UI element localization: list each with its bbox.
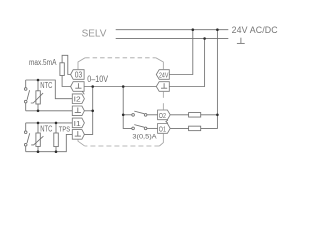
device outline dashes right side lower [162,103,164,109]
sensor TPS bottom lead [55,147,57,152]
svg-text:O2: O2 [159,111,166,120]
junction dot contact bus mid [122,114,125,117]
thermistor NTC1 bottom lead [37,104,39,111]
device outline stub at 24V [156,58,164,70]
wire ground distribution horizontal [84,86,156,88]
svg-text:max.5mA: max.5mA [29,58,57,67]
switch S1 riser top [25,80,27,88]
device outline stub at O1 [159,134,163,146]
wire 24V supply rail top [116,29,229,31]
svg-text:NTC: NTC [40,81,52,90]
device outline dashed bottom [85,145,160,147]
svg-text:TPS: TPS [59,125,70,134]
svg-text:0–10V: 0–10V [87,74,108,84]
wire O1 to load R2 [170,127,188,129]
junction dot contact bus top [122,85,125,88]
svg-text:24V AC/DC: 24V AC/DC [232,25,279,35]
switch S1 circle top [24,88,27,91]
junction dot NTC1 bottom [37,110,40,113]
terminal GND2 [72,106,84,116]
wire ground link to terminal bottom2 [84,110,92,112]
switch S1 circle bottom [24,100,27,103]
thermistor NTC2 top lead [37,123,39,133]
terminal O1 [158,124,171,134]
wire upper contact feed [123,114,132,116]
svg-text:I2: I2 [74,95,81,104]
wire sensor group1 bottom [26,110,73,112]
contact K2 circle left [132,127,135,130]
device outline stub below GND3 [78,140,85,146]
junction dot ground bus mid [91,110,94,113]
contact K2 circle right [144,127,147,130]
junction dot ground rail feed [203,37,206,40]
junction dot load return mid [216,114,219,117]
terminal 03 [71,70,85,80]
junction dot NTC1 top [37,79,40,82]
junction dot supply rail load return [216,28,219,31]
link terminal O2 to O1 [166,120,168,123]
sensor TPS top lead [55,123,57,133]
thermistor NTC2 body [36,133,40,146]
svg-text:O1: O1 [159,125,166,134]
ground glyph terminal GND1 [77,83,79,88]
device outline dashes right side upper [162,92,164,98]
load resistor R1 body [189,113,201,118]
wire load return vertical [216,30,218,115]
thermistor NTC1 body [36,91,40,104]
wire sensor group2 top [26,122,73,124]
switch S1 riser bottom [25,103,27,111]
wire R2 to return bus [201,115,218,129]
switch S1 blade [27,90,30,100]
svg-text:I1: I1 [74,119,81,128]
terminal GND right [156,82,169,92]
wire O2 to load R1 [170,114,188,116]
svg-text:03: 03 [75,71,82,80]
terminal GND1 [71,82,85,92]
resistor max.5mA body [60,63,64,76]
terminal 24V [156,70,169,80]
switch S2 riser top [25,123,27,131]
contact K2 blade [134,125,144,128]
switch S2 riser bottom [25,146,27,152]
wire sensor group1 top [26,80,73,99]
contact K2 wire to O1 [147,127,158,129]
svg-text:3(0,5)A: 3(0,5)A [132,134,157,141]
thermistor NTC1 diagonal [31,93,43,103]
wire supply ground rail [116,38,229,40]
ground symbol supply rail [240,38,242,44]
contact K1 circle left [132,114,135,117]
terminal I2 [72,94,84,104]
terminal GND3 [72,130,84,140]
thermistor NTC2 diagonal [31,136,43,145]
resistor max5mA loop wire [62,55,71,74]
device outline stub at 03 [78,58,85,70]
load resistor R2 body [189,126,201,130]
device outline dashed top [85,57,156,59]
terminal O2 [158,110,171,120]
link terminal GND1 to I2 [82,91,84,94]
wire contact bus vertical [123,87,132,129]
ground glyph terminal GND2 [77,108,79,113]
junction dot ground bus top [91,85,94,88]
contact K1 wire to O2 [147,114,158,116]
switch S2 circle top [24,131,27,134]
ground glyph terminal GND right [163,83,165,88]
svg-text:SELV: SELV [82,29,107,40]
junction dot TPS top [55,122,58,125]
junction dot NTC2 bottom [37,150,40,153]
junction dot NTC2 top [37,122,40,125]
thermistor NTC1 top lead [37,80,39,91]
switch S2 circle bottom [24,143,27,146]
thermistor NTC2 bottom lead [37,146,39,151]
junction dot TPS bottom [55,150,58,153]
ground glyph terminal GND3 [77,131,79,136]
wire 24V feed vertical [169,30,193,75]
svg-text:24V: 24V [159,72,169,79]
wire R1 to return bus [201,114,218,116]
svg-text:NTC: NTC [40,125,52,134]
junction dot supply rail 24V feed [192,28,195,31]
wire sensor group2 bottom [26,134,73,151]
switch S2 blade [27,133,30,143]
contact K1 circle right [144,114,147,117]
wire ground bus left vertical [84,87,92,135]
terminal I1 [72,118,84,128]
resistor max5mA bottom lead [62,76,71,87]
wire ground feed vertical [169,39,204,87]
sensor TPS body [54,133,59,147]
contact K1 blade [134,111,144,114]
